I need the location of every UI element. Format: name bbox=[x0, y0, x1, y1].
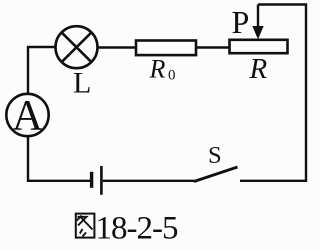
svg-text:P: P bbox=[232, 4, 250, 40]
slider arrow shaft P bbox=[257, 5, 259, 29]
svg-text:A: A bbox=[12, 93, 43, 140]
resistor R0 bbox=[136, 41, 196, 56]
wire top and right side bbox=[240, 5, 306, 181]
caption glyph 图 bbox=[76, 214, 95, 238]
wire R0 to R bbox=[196, 46, 230, 48]
ammeter A bbox=[6, 94, 48, 136]
battery long plate bbox=[100, 166, 103, 195]
svg-text:L: L bbox=[73, 67, 91, 100]
svg-text:0: 0 bbox=[168, 68, 176, 84]
switch blade S bbox=[194, 167, 238, 182]
svg-text:S: S bbox=[208, 142, 222, 169]
wire battery to switch bbox=[103, 180, 195, 182]
wire ammeter branch bbox=[28, 137, 90, 181]
svg-text:R: R bbox=[249, 53, 268, 85]
wire top-left corner bbox=[28, 47, 55, 95]
slider arrowhead bbox=[252, 26, 263, 39]
svg-text:R: R bbox=[149, 55, 166, 84]
lamp L bbox=[56, 26, 98, 68]
svg-text:18-2-5: 18-2-5 bbox=[96, 211, 178, 247]
rheostat R body bbox=[230, 40, 288, 53]
battery short plate bbox=[90, 172, 93, 188]
wire lamp to R0 bbox=[98, 46, 136, 48]
